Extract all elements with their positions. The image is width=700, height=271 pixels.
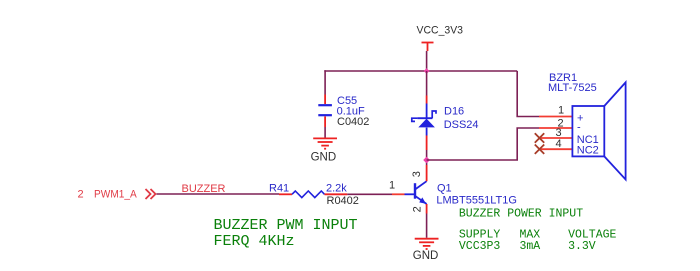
wire top to buzzer pin1: [517, 71, 539, 117]
svg-text:PWM1_A: PWM1_A: [94, 189, 137, 201]
wire capacitor branch: [324, 70, 326, 94]
svg-text:BUZZER: BUZZER: [182, 183, 226, 195]
svg-text:BUZZER POWER INPUT: BUZZER POWER INPUT: [459, 207, 583, 220]
svg-text:VCC_3V3: VCC_3V3: [417, 25, 464, 37]
svg-text:R0402: R0402: [327, 195, 359, 207]
svg-text:R41: R41: [269, 182, 289, 194]
svg-text:NC2: NC2: [577, 144, 599, 156]
ground GND (Q1): [415, 239, 439, 249]
wire emitter to gnd: [426, 214, 428, 238]
svg-text:LMBT5551LT1G: LMBT5551LT1G: [436, 195, 517, 207]
wire junction to buzzer pin2: [427, 128, 539, 160]
Q1 base pin lead: [392, 193, 405, 195]
svg-text:3mA: 3mA: [520, 240, 541, 253]
power symbol VCC_3V3: [422, 43, 434, 52]
junction diode-collector: [423, 157, 430, 164]
junction VCC tap: [424, 68, 430, 74]
svg-text:Q1: Q1: [437, 183, 452, 195]
svg-text:D16: D16: [444, 106, 464, 118]
svg-text:1: 1: [558, 104, 564, 116]
off-page connector PWM1_A: [146, 189, 156, 199]
buzzer BZR1 body: [572, 106, 604, 156]
no-connect X pin 4: [535, 145, 544, 154]
svg-text:2: 2: [411, 206, 423, 212]
transistor Q1: [405, 181, 427, 204]
svg-text:3.3V: 3.3V: [568, 240, 596, 253]
svg-text:DSS24: DSS24: [444, 119, 479, 131]
buzzer pin 3 lead: [541, 137, 572, 139]
svg-text:FERQ 4KHz: FERQ 4KHz: [214, 233, 295, 250]
ground GND (C55): [313, 138, 337, 148]
buzzer horn: [604, 82, 625, 179]
svg-text:2: 2: [78, 189, 84, 201]
svg-text:VCC3P3: VCC3P3: [459, 240, 501, 253]
capacitor C55: [318, 95, 332, 128]
svg-text:GND: GND: [413, 250, 439, 262]
wire cap to gnd: [324, 127, 326, 138]
svg-text:GND: GND: [311, 151, 337, 163]
svg-text:MLT-7525: MLT-7525: [548, 82, 597, 94]
svg-text:2.2k: 2.2k: [326, 182, 347, 194]
buzzer pin 1 lead: [539, 116, 572, 118]
wire top horizontal: [324, 70, 517, 72]
diode D16: [412, 96, 436, 151]
triangle: [418, 119, 435, 128]
buzzer pin 2 lead: [539, 127, 572, 129]
Q1 emitter pin lead: [426, 204, 428, 214]
wire diode branch: [426, 71, 428, 96]
no-connect X pin 3: [535, 133, 544, 142]
svg-text:4: 4: [556, 138, 562, 150]
svg-text:-: -: [577, 122, 581, 134]
resistor R41: [279, 191, 347, 198]
svg-text:1: 1: [389, 180, 395, 192]
svg-text:BUZZER PWM INPUT: BUZZER PWM INPUT: [214, 217, 358, 234]
svg-text:C0402: C0402: [337, 116, 369, 128]
svg-text:3: 3: [411, 171, 423, 177]
buzzer pin 4 lead: [541, 148, 572, 150]
schottky cathode bar with hooks: [417, 117, 432, 119]
wire net BUZZER: [157, 193, 280, 195]
wire resistor to Q1 base: [347, 193, 392, 195]
wire diode to junction: [426, 150, 428, 165]
wire VCC stem: [426, 51, 428, 71]
Q1 collector pin lead: [426, 165, 428, 181]
